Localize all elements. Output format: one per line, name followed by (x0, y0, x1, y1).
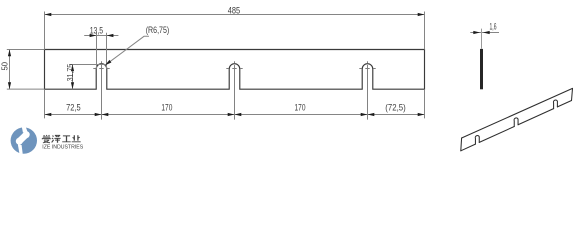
iso bottom edge with slot gaps (461, 101, 572, 151)
logo circle (11, 127, 37, 153)
dimension 50 left (7, 50, 45, 90)
centerline slot 3 (359, 61, 375, 119)
logo white swirl (16, 127, 30, 154)
iso left end (460, 138, 463, 151)
dimension 1,6 (470, 32, 499, 34)
centerline slot 2 (226, 61, 242, 119)
svg-text:1,6: 1,6 (490, 21, 497, 31)
svg-text:(R6,75): (R6,75) (146, 25, 170, 35)
logo chinese text 爱泽工业 (drawn strokes) (42, 135, 80, 143)
svg-text:485: 485 (228, 6, 240, 16)
业 (72, 135, 81, 142)
dimension 31,75 slot depth (69, 65, 105, 90)
泽 (52, 135, 61, 142)
isometric view of slotted bar (461, 88, 573, 150)
svg-text:IZE INDUSTRIES: IZE INDUSTRIES (42, 145, 83, 151)
dimension 485 top (45, 12, 425, 50)
side view thin plate (480, 49, 483, 89)
svg-text:170: 170 (161, 103, 172, 113)
svg-text:72,5: 72,5 (66, 103, 81, 113)
bottom dimension line 72,5 / 170 / 170 / (72,5) (45, 89, 425, 118)
dimension 13,5 slot width (84, 33, 118, 69)
svg-text:50: 50 (0, 62, 10, 71)
svg-text:170: 170 (295, 103, 306, 113)
front view plate outline with three slots (45, 50, 425, 90)
leader (R6,75) (105, 36, 149, 65)
工 (62, 136, 70, 142)
iso right end (572, 88, 573, 100)
iso slot 2 (514, 118, 518, 127)
iso slot 1 (475, 136, 479, 145)
svg-text:13,5: 13,5 (90, 26, 103, 36)
svg-text:(72,5): (72,5) (385, 103, 405, 113)
iso top edge (462, 88, 573, 138)
centerline slot 1 (93, 61, 109, 119)
爱 (42, 135, 50, 143)
iso slot 3 (553, 100, 557, 109)
svg-text:31,75: 31,75 (65, 64, 75, 82)
